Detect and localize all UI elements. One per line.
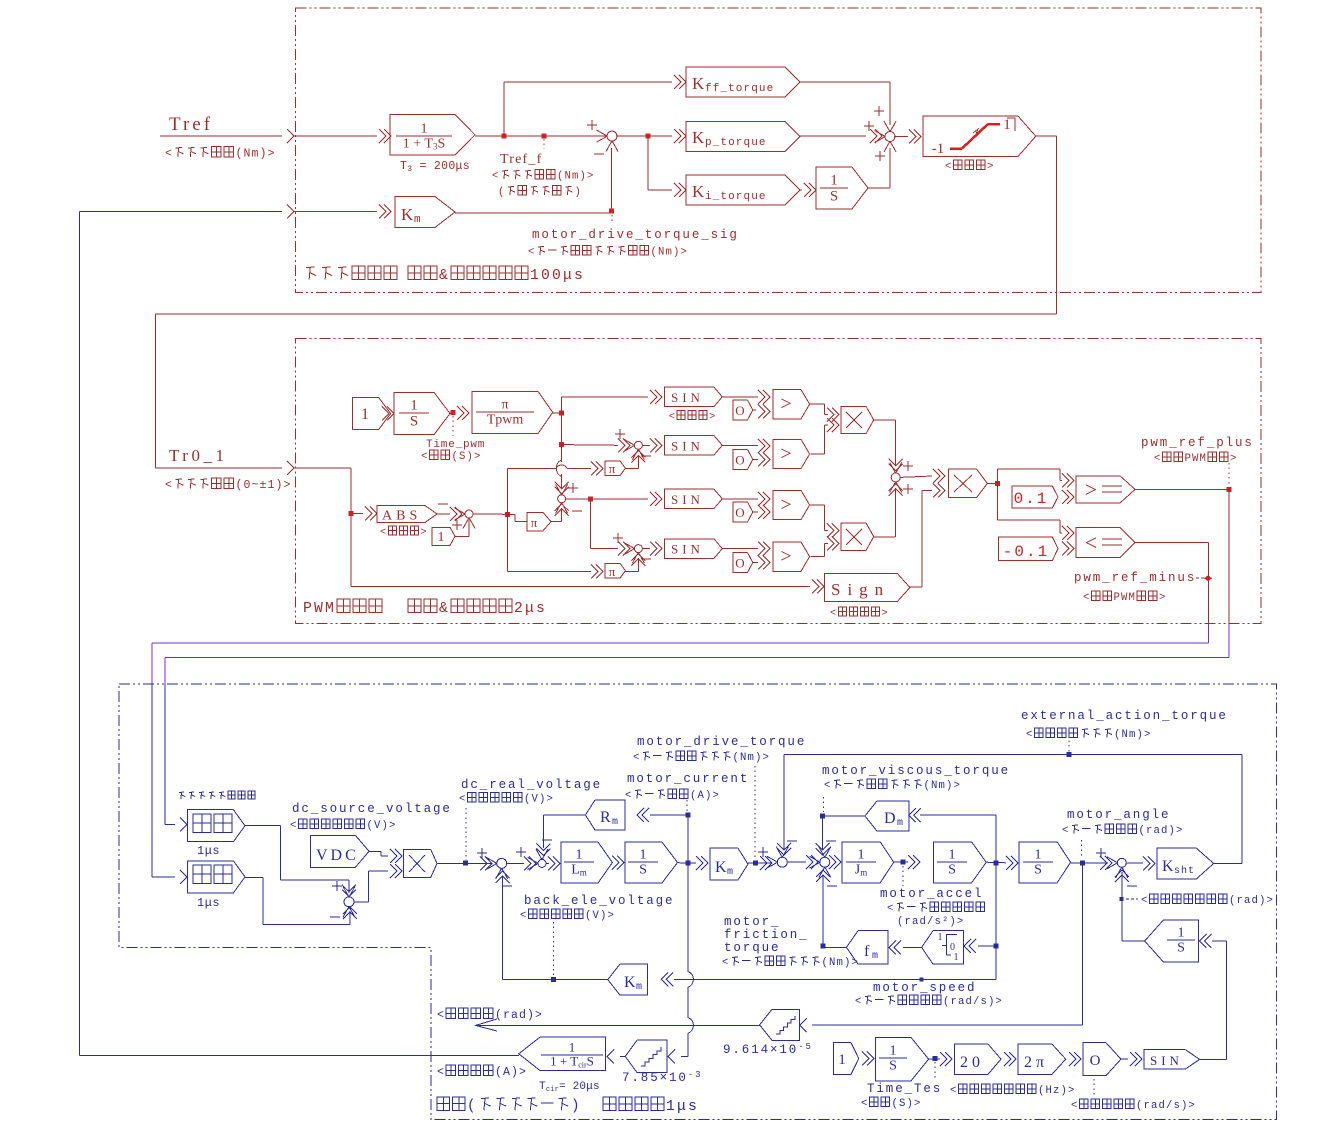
wire limiter to fm	[903, 946, 922, 948]
svg-text:external_action_torque: external_action_torque	[1021, 709, 1228, 723]
svg-text:(Nm)>: (Nm)>	[822, 957, 859, 969]
svg-text:(rad)>: (rad)>	[1139, 825, 1184, 837]
summing junction J1	[497, 858, 507, 868]
block staircase 7.85e-3	[625, 1040, 667, 1072]
svg-text:(V)>: (V)>	[585, 910, 615, 922]
summing junction SA	[465, 510, 473, 518]
block 1/S partner angle	[1145, 920, 1199, 962]
block 遅延 delay 2	[187, 861, 245, 893]
svg-text:1: 1	[1003, 117, 1011, 133]
block 1/S integrator torque	[816, 167, 868, 209]
svg-text:SIN: SIN	[1150, 1053, 1183, 1068]
wire angle to J5	[1071, 862, 1108, 864]
svg-text:(S)>: (S)>	[892, 1098, 922, 1110]
wire pwm_ref_plus down (red then purple)	[1228, 490, 1230, 624]
svg-text:(rad/s)>: (rad/s)>	[1136, 1100, 1196, 1112]
block constant 0.1	[1012, 486, 1058, 508]
block Kff_torque	[686, 67, 800, 97]
summing junction J3	[777, 857, 787, 867]
block limiter 制限器	[923, 116, 1036, 157]
svg-text:m: m	[897, 818, 905, 829]
svg-text:>: >	[780, 443, 791, 465]
svg-text:1: 1	[890, 1044, 897, 1059]
svg-text:<: <	[1071, 1100, 1079, 1112]
svg-text:(Nm)>: (Nm)>	[924, 780, 961, 792]
svg-text:O: O	[1090, 1053, 1101, 1069]
summing junction S4	[634, 545, 642, 553]
wire pi3 to S3	[551, 521, 562, 523]
svg-text:(V)>: (V)>	[524, 794, 554, 806]
block Sign	[825, 573, 910, 601]
svg-text:>: >	[987, 161, 995, 173]
svg-text:K: K	[692, 74, 705, 93]
svg-text:1 + TcirS: 1 + TcirS	[550, 1054, 594, 1070]
wire pwm_ref_minus output	[1135, 542, 1208, 544]
wire gt2 to X1	[811, 453, 825, 455]
svg-text:2π: 2π	[1024, 1054, 1048, 1071]
wire branch S3 out to S4	[590, 499, 592, 549]
node motor_drive_torque_sig dot	[609, 209, 614, 214]
wire motor speed trunk up to Dm	[995, 815, 997, 863]
wire trunk to Sign	[351, 586, 810, 588]
wire pi1 to S2	[626, 467, 639, 469]
wire Ki to integrator	[800, 189, 802, 191]
svg-text:Sign: Sign	[831, 580, 890, 599]
block 1/S forced time	[875, 1037, 928, 1081]
svg-text:<: <	[633, 752, 641, 764]
svg-text:(Hz)>: (Hz)>	[1038, 1085, 1075, 1097]
block fm	[846, 931, 888, 964]
svg-text:<: <	[165, 147, 173, 160]
wire X3 output node	[987, 482, 997, 484]
wire S4 to SIN4	[642, 548, 650, 550]
block Km back-emf	[608, 964, 648, 995]
svg-text:1 + T3S: 1 + T3S	[403, 136, 446, 151]
svg-text:(rad)>: (rad)>	[495, 1009, 543, 1022]
svg-text:0.1: 0.1	[1014, 490, 1049, 508]
wire 7.85e-3 to current filter	[620, 1055, 625, 1057]
svg-text:f: f	[864, 943, 871, 960]
block multiplier X3	[949, 469, 988, 497]
block staircase 9.614e-5	[760, 1009, 800, 1040]
wire -0.1 to <=	[1067, 541, 1074, 555]
wire SIN2 to gt2	[722, 444, 758, 446]
wire 1 to sum SA	[455, 535, 469, 537]
svg-text:1: 1	[438, 530, 445, 545]
svg-text:<: <	[722, 957, 730, 969]
svg-text:ABS: ABS	[382, 509, 421, 524]
wire trunk down	[350, 468, 352, 587]
block VDC	[310, 835, 369, 867]
wire 1/S to Km	[678, 862, 697, 865]
svg-text:1: 1	[830, 173, 838, 189]
block O forced	[1083, 1043, 1121, 1076]
svg-text:1: 1	[410, 398, 418, 414]
block 1/S speed	[934, 842, 987, 883]
svg-text:SIN: SIN	[671, 542, 704, 557]
wire S2 to SIN2	[642, 444, 650, 446]
svg-text:<: <	[625, 790, 633, 802]
wire 1/S to 20	[929, 1058, 940, 1060]
svg-text:<: <	[824, 780, 832, 792]
svg-text:1: 1	[569, 1040, 576, 1055]
block limited integrator	[922, 931, 964, 964]
svg-text:): )	[571, 1099, 582, 1115]
svg-text:1: 1	[838, 1052, 846, 1068]
svg-text:1: 1	[954, 952, 959, 963]
svg-text:&: &	[439, 268, 450, 284]
svg-text:SIN: SIN	[671, 492, 704, 507]
wire Ksht output feedback to J3 (external torque net)	[1214, 862, 1242, 864]
torque controller enclosure box	[296, 8, 1262, 293]
svg-text:i_torque: i_torque	[705, 191, 767, 203]
wire delay2 output to sum J0	[245, 877, 263, 879]
svg-text:(rad/s²)>: (rad/s²)>	[897, 916, 964, 928]
label motor_angle	[1081, 840, 1083, 858]
block 1/S angle	[1019, 842, 1071, 883]
svg-text:<: <	[1141, 895, 1149, 907]
svg-text:m: m	[872, 951, 880, 962]
svg-text:O: O	[735, 452, 744, 467]
wire gt1 to X1	[810, 403, 825, 405]
wire motor angle down to 9.614e-5 block	[1082, 863, 1084, 1025]
block SIN 3	[665, 489, 723, 508]
svg-text:(Nm)>: (Nm)>	[651, 247, 688, 259]
svg-text:PWM: PWM	[1185, 453, 1207, 465]
svg-text:O: O	[735, 556, 744, 571]
summing junction J2	[538, 859, 546, 867]
svg-text:π: π	[609, 461, 616, 476]
svg-text:dc_source_voltage: dc_source_voltage	[292, 802, 452, 816]
block comparator > 4	[773, 542, 810, 571]
wire 1/Jm to 1/S speed	[894, 861, 908, 863]
svg-text:(: (	[498, 187, 506, 199]
node dashed to Tref_f label	[542, 134, 547, 139]
wire Km back-emf to J1	[503, 979, 608, 981]
svg-text:>: >	[1085, 477, 1097, 502]
wire multiplier output to J1	[437, 862, 492, 864]
wire pwm_ref_minus down (red then purple)	[1208, 543, 1210, 624]
svg-text:motor_viscous_torque: motor_viscous_torque	[822, 764, 1010, 778]
wire SIN1 to gt1	[722, 396, 758, 398]
svg-text:>: >	[709, 412, 717, 423]
svg-text:<: <	[437, 1066, 445, 1079]
block constant 1 (forced)	[834, 1043, 859, 1075]
title トルク制御器 計算&入出力周期100μs	[306, 266, 314, 269]
svg-text:<: <	[855, 996, 863, 1008]
wire 1/S output up to TS2	[868, 187, 890, 189]
wire O3 to gt3	[753, 511, 758, 513]
svg-text:(A)>: (A)>	[690, 790, 720, 802]
svg-text:PWM: PWM	[1114, 592, 1136, 604]
wire 1/S to pi/Tpwm	[450, 412, 455, 414]
block pi 3	[527, 512, 551, 530]
block Km motor	[710, 848, 748, 880]
block Ki_torque	[686, 175, 800, 205]
block pi/Tpwm	[472, 392, 553, 434]
wire delay1 output to multiplier lower path	[245, 824, 280, 826]
wire VDC to multiplier	[369, 851, 381, 853]
svg-text:1μs: 1μs	[666, 1099, 699, 1115]
block 1/Lm	[561, 842, 612, 883]
label back_ele_voltage	[553, 922, 555, 976]
svg-text:(Nm)>: (Nm)>	[1114, 729, 1151, 741]
svg-text:m: m	[727, 867, 735, 878]
svg-text:S: S	[1177, 940, 1185, 955]
wire fm output to J4	[823, 946, 846, 948]
block O constant 4	[733, 553, 753, 573]
label external_action_torque	[1068, 731, 1070, 752]
node Tref_f junction dot	[502, 134, 507, 139]
block O constant 3	[733, 502, 753, 522]
wire to ABS	[351, 512, 363, 514]
wire gt4 to X2	[811, 556, 825, 558]
block comparator >=	[1076, 476, 1135, 503]
block O constant 1	[733, 400, 753, 420]
wire 1 to 1/S forced	[867, 1052, 874, 1066]
svg-text:<: <	[459, 794, 467, 806]
wire motor speed trunk down to integrator-limiter	[995, 863, 997, 980]
wire motor current down to 7.85e-3	[687, 863, 689, 971]
svg-text:1: 1	[640, 848, 647, 863]
svg-text:motor_speed: motor_speed	[873, 981, 976, 995]
svg-text:ff_torque: ff_torque	[705, 83, 774, 95]
wire O4 to gt4	[753, 562, 758, 564]
svg-text:<: <	[887, 903, 895, 915]
wire Kff feed: dot up and right	[503, 82, 505, 136]
svg-text:S: S	[639, 862, 647, 877]
svg-text:1: 1	[949, 848, 956, 863]
svg-text:-1: -1	[932, 141, 945, 157]
wire O to SIN	[1121, 1058, 1128, 1060]
wire pwm_ref_plus output	[1135, 489, 1229, 491]
summing junction TS1	[607, 131, 617, 141]
wire TS1 to Kp	[616, 135, 672, 137]
block Km torque signal	[395, 197, 455, 228]
svg-text:pwm_ref_plus: pwm_ref_plus	[1141, 436, 1254, 450]
wire S3 to SIN3	[566, 498, 648, 500]
block comparator <=	[1076, 528, 1135, 558]
svg-text:<: <	[437, 1009, 445, 1022]
block SIN 1	[665, 387, 723, 406]
wire Km output up to TS1	[455, 212, 612, 214]
svg-text:π: π	[531, 515, 538, 530]
block SIN 2	[665, 436, 723, 455]
wire branch to pi2	[507, 514, 509, 571]
block comparator > 1	[773, 390, 810, 419]
summing junction J0	[344, 897, 354, 907]
svg-text:<: <	[421, 451, 429, 463]
wire 2pi to O	[1074, 1052, 1081, 1066]
svg-text:-0.1: -0.1	[1003, 543, 1049, 561]
wire J1 to J2	[507, 862, 524, 864]
wire J2 to 1/Lm	[546, 862, 549, 864]
summing junction SB	[891, 473, 900, 482]
summing junction TS2	[885, 132, 895, 142]
svg-text:100μs: 100μs	[530, 268, 585, 284]
block 1/S current	[625, 842, 678, 883]
svg-text:>: >	[780, 546, 791, 568]
block Kp_torque	[686, 122, 800, 152]
svg-text:motor_: motor_	[724, 915, 780, 929]
svg-text:Time_pwm: Time_pwm	[426, 439, 485, 451]
svg-text:<: <	[380, 528, 388, 539]
svg-text:(S)>: (S)>	[452, 451, 482, 463]
svg-text:&: &	[439, 601, 450, 617]
wire 1/Lm to 1/S	[611, 862, 614, 864]
svg-text:SIN: SIN	[671, 390, 704, 405]
svg-text:>: >	[1230, 453, 1238, 465]
svg-text:<: <	[1026, 729, 1034, 741]
block Dm	[865, 801, 909, 831]
svg-text:>: >	[421, 528, 429, 539]
wire Dm output to J4	[823, 815, 865, 817]
summing junction J5	[1117, 858, 1126, 867]
svg-text:(rad/s)>: (rad/s)>	[943, 996, 1003, 1008]
wire Km feedback input (blue from machine)	[79, 210, 282, 212]
svg-text:p_torque: p_torque	[705, 137, 767, 149]
svg-text:<: <	[669, 412, 677, 423]
svg-text:dc_real_voltage: dc_real_voltage	[461, 778, 602, 792]
svg-text:S: S	[1034, 862, 1042, 877]
svg-text:<: <	[1083, 592, 1091, 604]
wire limiter output down to PWM section	[1036, 135, 1057, 137]
svg-text:<: <	[290, 820, 298, 832]
wire to pi3	[508, 513, 515, 515]
block constant 1 (time)	[352, 398, 390, 430]
svg-text:m: m	[414, 214, 421, 226]
block constant 20	[954, 1044, 1001, 1074]
svg-text:S: S	[410, 413, 418, 429]
svg-text:1: 1	[1178, 926, 1185, 941]
wire SB to X3	[900, 476, 932, 477]
block SIN forced	[1144, 1050, 1200, 1070]
wire Kff output to TS2	[800, 81, 890, 83]
svg-text:VDC: VDC	[316, 847, 359, 864]
block O constant 2	[733, 449, 753, 469]
svg-text:motor_accel: motor_accel	[880, 887, 983, 901]
svg-text:<: <	[520, 910, 528, 922]
wire SIN3 to gt3	[722, 498, 758, 500]
wire Km to J3	[748, 862, 772, 864]
svg-text:PWM: PWM	[303, 601, 336, 617]
wire pi2 to S4	[626, 570, 639, 572]
svg-text:(Nm)>: (Nm)>	[236, 147, 276, 160]
svg-text:motor_angle: motor_angle	[1067, 808, 1170, 822]
label motor_viscous_torque	[823, 797, 825, 812]
svg-text:(0~±1)>: (0~±1)>	[236, 479, 292, 492]
block current filter 1/(1+TcirS)	[519, 1037, 606, 1070]
svg-text:friction_: friction_	[724, 928, 809, 942]
wire J5 to Ksht	[1126, 862, 1143, 864]
svg-text:<: <	[830, 609, 838, 620]
svg-text:1: 1	[938, 932, 943, 943]
block constant 1 (PWM)	[432, 527, 455, 545]
wire X3 to >= comparator	[997, 469, 999, 483]
wire 1/S to 1/S angle	[986, 861, 1006, 864]
svg-text:K: K	[692, 128, 705, 147]
machine simulator enclosure box	[119, 684, 1277, 1119]
wire current signal out to far left and up to torque controller	[79, 1055, 519, 1057]
svg-text:(A)>: (A)>	[495, 1066, 527, 1079]
svg-text:Tref: Tref	[169, 114, 213, 135]
block constant -0.1	[999, 537, 1058, 561]
block pi 2	[605, 563, 626, 578]
block SIN 4	[665, 539, 723, 558]
wire SIN up to partner integrator	[1200, 1058, 1227, 1060]
svg-text:>: >	[1159, 592, 1167, 604]
svg-text:(Nm)>: (Nm)>	[557, 171, 594, 183]
wire TS2 to limiter	[894, 136, 908, 138]
block multiplier dc	[404, 849, 437, 877]
wire SA to pi branch node	[473, 513, 508, 515]
svg-text:Tr0_1: Tr0_1	[169, 446, 227, 465]
svg-text:(V)>: (V)>	[367, 820, 397, 832]
wire 1 to 1/S	[387, 407, 394, 421]
block Ksht	[1157, 848, 1213, 879]
wire Sign to X3	[910, 586, 922, 588]
wire O2 to gt2	[753, 458, 758, 460]
svg-text:O: O	[735, 403, 744, 418]
svg-text:>: >	[780, 393, 791, 415]
block ABS	[377, 506, 437, 523]
svg-text:motor_current: motor_current	[627, 772, 749, 786]
wire motor current up to Rm	[687, 815, 689, 863]
label motor_drive_torque	[754, 766, 756, 860]
svg-text:<: <	[1062, 825, 1070, 837]
svg-text:<: <	[1085, 530, 1097, 555]
label dc_real_voltage	[465, 808, 467, 860]
block 遅延 delay 1	[187, 810, 245, 842]
summing junction J4	[820, 857, 830, 867]
svg-text:1: 1	[1035, 848, 1042, 863]
svg-text:S: S	[948, 862, 956, 877]
wire pwm carrier trunk	[553, 412, 562, 414]
svg-text:torque: torque	[724, 941, 780, 955]
svg-text:motor_drive_torque: motor_drive_torque	[637, 735, 806, 749]
block comparator > 2	[773, 439, 810, 468]
svg-text:R: R	[600, 809, 612, 826]
label motor_current	[686, 800, 688, 811]
svg-text:>: >	[882, 609, 890, 620]
wire branch to pi1	[507, 468, 509, 514]
svg-text:motor_drive_torque_sig: motor_drive_torque_sig	[532, 228, 739, 242]
svg-text:back_ele_voltage: back_ele_voltage	[524, 894, 674, 908]
svg-text:(Nm)>: (Nm)>	[733, 752, 770, 764]
svg-text:1: 1	[361, 406, 369, 423]
wire O1 to gt1	[753, 409, 756, 411]
svg-text:m: m	[636, 982, 644, 993]
wire gt3 to X2	[810, 504, 825, 506]
svg-text:(: (	[467, 1099, 478, 1115]
wire partner angle to J5	[1122, 940, 1145, 942]
svg-text:SIN: SIN	[671, 438, 704, 453]
wire 0.1 to >=	[1067, 490, 1074, 504]
wire carrier down with hop to S3	[561, 445, 563, 462]
wire Rm output to J2	[543, 814, 585, 816]
wire Tr0_1 input	[155, 467, 282, 469]
wire Kp output to TS2	[800, 135, 866, 137]
svg-text:<: <	[492, 171, 500, 183]
wire motor speed to back-emf Km	[674, 978, 996, 980]
wire J4 to 1/Jm	[829, 861, 831, 863]
wire 9.614e-5 output to angle signal arrow	[476, 1024, 760, 1026]
block pi 1	[605, 461, 626, 476]
svg-text:<: <	[950, 1085, 958, 1097]
svg-text:S: S	[830, 188, 838, 204]
svg-text:<: <	[861, 1098, 869, 1110]
svg-text:): )	[575, 187, 583, 199]
